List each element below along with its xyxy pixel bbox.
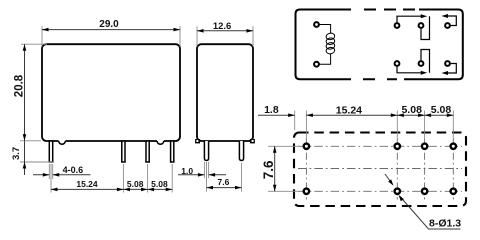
schematic case top dashes [364, 9, 415, 11]
centerline col 2 [396, 138, 398, 200]
dimension 7.6 (pcb rows, vertical) [268, 146, 300, 191]
hole r2c1 [304, 189, 309, 194]
centerline col 4 [452, 138, 454, 200]
svg-text:1.8: 1.8 [264, 104, 279, 116]
coil terminal bottom [314, 62, 319, 67]
dimension 1.8 (pcb) [258, 111, 295, 131]
pin 4 (front view) [171, 141, 174, 162]
contact terminal NC bottom (c4) [395, 61, 400, 66]
svg-text:7.6: 7.6 [261, 160, 276, 179]
coil L (4 loops) [326, 33, 336, 55]
svg-text:8-Ø1.3: 8-Ø1.3 [429, 218, 461, 230]
dimension 5.08 #2 (front) [148, 164, 173, 193]
NO top wire with arrow left (c3) [448, 16, 457, 26]
svg-text:5.08: 5.08 [431, 104, 452, 116]
svg-text:4-0.6: 4-0.6 [63, 165, 84, 175]
svg-text:3.7: 3.7 [11, 147, 22, 160]
centerline row 1 [298, 145, 462, 147]
svg-text:15.24: 15.24 [76, 179, 98, 189]
centerline row 2 [298, 190, 462, 192]
contact terminal NC top (c1) [395, 23, 400, 28]
svg-text:7.6: 7.6 [217, 177, 229, 187]
COM top U wire (c2) [421, 16, 430, 39]
side pin 2 [239, 141, 243, 161]
centerline middle [298, 168, 462, 170]
relay body side view [197, 44, 253, 141]
schematic case bottom dashes [363, 78, 397, 80]
schematic case outline solid right part [404, 10, 463, 80]
centerline col 3 [424, 138, 426, 200]
dimension 4-0.6 (pin width, front) [33, 164, 91, 179]
side pip left (corner foot) [195, 139, 200, 143]
pin 3 (front view) [146, 141, 149, 162]
pin 1 (coil pin, front view) [49, 141, 52, 162]
coil wire top [320, 25, 331, 34]
hole r1c3 [422, 144, 427, 149]
hole r2c3 [422, 189, 427, 194]
svg-text:5.08: 5.08 [127, 179, 144, 189]
contact terminal NO top (c3) [445, 23, 450, 28]
hole r2c2 [395, 189, 400, 194]
dimension 29.0 (front width) [42, 26, 180, 46]
side pip right (corner foot) [250, 139, 255, 143]
hole r1c4 [451, 144, 456, 149]
svg-text:29.0: 29.0 [99, 19, 119, 30]
NO bottom wire with arrow left (c6) [448, 64, 457, 74]
case pip left (semicircle notch) [59, 140, 66, 142]
leader line lower with label 8-Ø1.3 [400, 197, 461, 230]
svg-text:15.24: 15.24 [336, 104, 362, 116]
pin 2 (front view) [122, 141, 125, 162]
contact terminal COM top (c2) [419, 23, 424, 28]
hole r1c2 [395, 144, 400, 149]
movable contact wire bottom row (from c4, arrow right) [397, 67, 421, 73]
movable contact wire top row (from c1, arrow right) [397, 16, 421, 22]
dimension 12.6 (side width) [197, 26, 253, 46]
dimension 3.7 (pin length, front) [20, 141, 53, 175]
dimension 15.24 (pin pitch, front) [51, 164, 123, 193]
dimension 5.08 #1 (pcb) [397, 111, 424, 141]
dimension 5.08 #2 (pcb) [425, 111, 454, 141]
svg-text:5.08: 5.08 [401, 104, 422, 116]
svg-text:1.0: 1.0 [181, 166, 193, 176]
COM bottom U wire (c5) [421, 50, 430, 73]
schematic case outline solid left part [296, 10, 352, 80]
case pip right (semicircle notch) [157, 140, 164, 142]
coil wire bottom [320, 53, 331, 64]
centerline col 1 [305, 138, 307, 200]
hole r1c1 [304, 144, 309, 149]
dimension 20.8 (front height) [20, 44, 47, 141]
svg-text:12.6: 12.6 [213, 21, 232, 32]
dimension 5.08 #1 (front) [123, 164, 147, 193]
pcb outline dashed [294, 133, 466, 207]
relay body front view [42, 44, 180, 141]
hole r2c4 [451, 189, 456, 194]
contact terminal NO bottom (c6) [445, 61, 450, 66]
dimension 1.0 (side pin width) [178, 162, 226, 178]
dimension 7.6 (side pin pitch) [207, 162, 242, 192]
svg-text:20.8: 20.8 [13, 74, 25, 97]
dimension 15.24 (pcb) [306, 111, 397, 141]
svg-text:5.08: 5.08 [151, 179, 168, 189]
coil terminal top [314, 22, 319, 27]
side pin 1 [204, 141, 208, 161]
leader line upper (to hole r2c2) [385, 174, 392, 183]
contact terminal COM bottom (c5) [419, 61, 424, 66]
